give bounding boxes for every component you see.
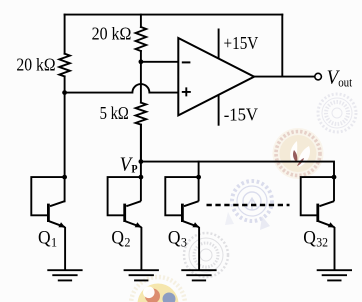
svg-text:+15V: +15V [224, 33, 259, 53]
base bar Q32 [316, 204, 319, 222]
op-amp plus sign [182, 87, 191, 96]
wire negative supply [218, 95, 220, 126]
wire feedback vertical [281, 15, 283, 77]
wire base-collector tie loop Q2 [108, 177, 141, 215]
collector lead Q32 [319, 201, 334, 206]
svg-text:1: 1 [51, 235, 57, 249]
wire bus corner down to Q32 collector [333, 177, 335, 201]
emitter lead Q2 [125, 221, 141, 227]
wire emitter to ground Q1 [64, 227, 66, 270]
node collector-base junction Q2 [139, 175, 144, 180]
wire left branch to Q1 [64, 76, 66, 201]
wire emitter to ground Q3 [198, 227, 200, 270]
wire left branch upper lead [64, 15, 66, 54]
emitter arrow Q2 [135, 222, 142, 227]
resistor R2 20k feedback branch [136, 27, 147, 51]
wire base-collector tie loop Q32 [301, 177, 334, 215]
op-amp minus sign [182, 61, 191, 63]
resistor R1 20k left [59, 54, 70, 77]
emitter arrow Q32 [328, 222, 335, 227]
svg-text:32: 32 [316, 235, 328, 249]
wire bus tap down to Q3 collector [198, 177, 200, 201]
collector lead Q3 [184, 201, 199, 206]
ground Q2 [124, 270, 159, 280]
node collector-base junction Q3 [196, 175, 201, 180]
svg-text:Q: Q [303, 228, 316, 249]
base bar Q2 [123, 204, 126, 222]
transistor Q32 [301, 177, 352, 281]
wire noninverting input with hop [65, 84, 179, 92]
collector lead Q1 [50, 201, 65, 206]
emitter lead Q32 [318, 221, 334, 227]
transistor Q3 [165, 177, 216, 280]
output terminal [315, 73, 322, 80]
ground Q32 [317, 270, 352, 280]
node collector-base junction Q32 [332, 175, 337, 180]
svg-text:20 kΩ: 20 kΩ [16, 55, 55, 75]
svg-text:P: P [131, 161, 137, 175]
svg-text:Q: Q [168, 228, 181, 249]
node A dot [139, 59, 144, 64]
wire R2 to node A [140, 51, 142, 62]
wire positive supply [218, 29, 220, 59]
wire output [254, 76, 315, 78]
svg-text:Q: Q [111, 228, 124, 249]
ground Q1 [47, 270, 82, 280]
svg-text:out: out [338, 75, 352, 89]
base bar Q3 [181, 204, 184, 222]
wire 20k top lead [140, 15, 142, 27]
wire VP bus [141, 162, 334, 177]
wire emitter to ground Q32 [334, 227, 336, 270]
wire inverting input [141, 61, 178, 63]
resistor R3 5k [136, 103, 147, 125]
base bar Q1 [47, 204, 50, 222]
wire R3 to node VP [140, 125, 142, 162]
svg-text:3: 3 [181, 235, 187, 249]
wire node A down through hop to R3 [140, 62, 142, 103]
op-amp U1 [178, 38, 254, 115]
collector lead Q2 [126, 201, 141, 206]
emitter lead Q3 [183, 221, 199, 227]
node B dot [62, 90, 67, 95]
node VP dot [139, 159, 144, 164]
svg-text:5 kΩ: 5 kΩ [100, 103, 129, 123]
svg-text:20 kΩ: 20 kΩ [92, 24, 132, 44]
svg-text:Q: Q [38, 228, 51, 249]
wire Q3 tap [198, 162, 200, 178]
emitter arrow Q1 [58, 222, 65, 227]
wire base-collector tie loop Q1 [31, 177, 64, 215]
wire emitter to ground Q2 [140, 227, 142, 270]
emitter arrow Q3 [192, 222, 199, 227]
node collector-base junction Q1 [62, 175, 67, 180]
emitter lead Q1 [49, 221, 65, 227]
svg-text:-15V: -15V [224, 104, 259, 124]
svg-text:2: 2 [124, 235, 130, 249]
wire VP node down to Q2 collector [140, 125, 142, 202]
wire top feedback rail [65, 14, 283, 16]
transistor Q2 [108, 125, 159, 281]
transistor Q1 [31, 177, 82, 280]
wire base-collector tie loop Q3 [165, 177, 198, 215]
ground Q3 [181, 270, 216, 280]
dotted continuation line [207, 204, 290, 207]
